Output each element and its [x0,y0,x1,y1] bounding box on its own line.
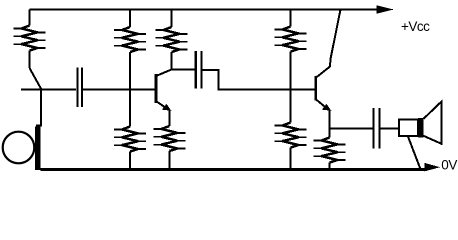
transistor Q1 base bar [155,74,158,103]
arrowhead +Vcc rail [377,5,394,13]
wire Q1 emitter down to Re1 [168,110,170,126]
wire R3 to Q1 collector node [171,52,173,70]
capacitor C2 left plate [195,51,197,89]
microphone MIC body bar [35,127,41,171]
wire bottom 0V rail [41,168,428,171]
wire top rail down to R5 [290,10,292,27]
wire below R1 [29,51,31,69]
wire R4 to bottom rail [129,152,131,171]
wire input node to C1 [21,89,76,91]
arrowhead 0V rail [425,163,441,172]
wire C3 to speaker [381,128,401,130]
wire top rail down to R3 [171,10,173,28]
resistor R5 [275,27,307,52]
transistor Q2 emitter lead [317,100,327,109]
wire Q2 emitter down to R7 [329,110,331,138]
capacitor C3 right plate [378,108,380,149]
resistor R4 [114,127,146,152]
wire top supply rail [30,8,382,10]
wire from top rail down to R1 [29,10,31,26]
resistor R3 [156,27,188,52]
transistor Q1 collector lead [157,70,172,76]
wire emitter node to C3 [330,128,373,130]
wire R2 down through base node to R4 [129,52,131,127]
wire diagonal R1 to input node [30,68,42,90]
wire Re1 to bottom rail [168,151,170,170]
transistor Q1 emitter lead [157,102,168,109]
capacitor C1 left plate [76,68,78,108]
svg-text:0V: 0V [441,158,457,173]
wire C2 right to step corner [203,69,219,71]
wire C1 to Q1 base [83,89,156,91]
transistor Q1 emitter arrowhead [162,104,171,111]
wire speaker to 0V rail [408,137,421,171]
transistor Q2 emitter arrowhead [322,104,331,111]
resistor Re1 [153,126,185,151]
capacitor C2 right plate [201,51,203,89]
wire top rail down to R2 [129,10,131,28]
speaker LS1 magnet bar [418,118,424,138]
wire R7 to bottom rail [329,163,331,171]
resistor R2 [114,27,146,52]
speaker LS1 box [399,120,418,137]
transistor Q2 base bar [314,76,317,101]
wire R6 to bottom rail [290,148,292,171]
speaker LS1 cone [424,102,442,144]
transistor Q2 collector lead [317,10,341,78]
resistor R7 [314,138,346,163]
wire input node down to microphone [36,90,41,126]
wire Q1 collector node to C2 [172,69,195,71]
capacitor C1 right plate [81,68,83,108]
resistor R6 [275,123,307,148]
wire R5 down through base node to R6 [290,52,292,123]
wire step down [218,69,220,90]
svg-text:+Vcc: +Vcc [401,19,430,34]
wire step to Q2 base [218,89,315,91]
capacitor C3 left plate [372,108,374,149]
microphone MIC circle [3,132,35,164]
resistor R1 [14,26,46,51]
